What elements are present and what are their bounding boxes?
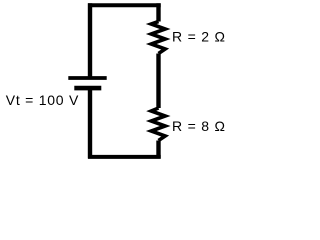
wire: top horizontal [88,3,161,7]
svg-text:Vt = 100 V: Vt = 100 V [6,92,79,108]
wire: bottom horizontal [88,155,161,159]
wire: right vertical top (top wire to R1) [156,3,160,21]
svg-text:R = 8 Ω: R = 8 Ω [172,118,226,134]
wire: right vertical middle (R1 to R2) [156,54,160,109]
battery V1 long plate (+) [68,76,106,80]
wire: left vertical lower (battery - to bottom wire) [88,88,92,158]
battery V1 short plate (-) [74,86,101,91]
resistor R1 zigzag (R = 2 ohm) [151,22,165,54]
svg-text:R = 2 Ω: R = 2 Ω [172,28,226,44]
wire: left vertical upper (top wire to battery +) [88,3,92,77]
resistor R2 zigzag (R = 8 ohm) [151,108,165,141]
wire: right vertical bottom (R2 to bottom wire) [156,141,160,159]
